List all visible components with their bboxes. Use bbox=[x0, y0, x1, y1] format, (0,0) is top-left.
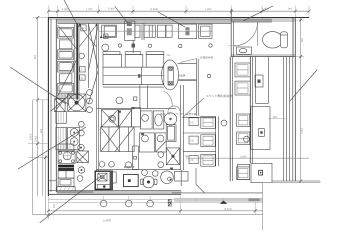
note circles row bbox=[102, 44, 109, 51]
svg-text:800: 800 bbox=[301, 37, 304, 42]
svg-text:P.S: P.S bbox=[190, 140, 194, 143]
svg-text:250: 250 bbox=[53, 203, 56, 208]
svg-text:P.S: P.S bbox=[190, 159, 194, 162]
svg-text:1,350: 1,350 bbox=[62, 8, 69, 11]
hatched shelf bbox=[57, 93, 76, 98]
right multi-line window wall bbox=[282, 57, 284, 182]
svg-text:(5,400): (5,400) bbox=[224, 208, 232, 211]
svg-text:1,400: 1,400 bbox=[262, 8, 269, 11]
svg-text:5,400: 5,400 bbox=[103, 219, 111, 223]
keyed circles next to column bbox=[78, 121, 84, 127]
svg-text:360: 360 bbox=[185, 155, 190, 158]
big circle machine bbox=[161, 171, 174, 184]
dishwasher hatched square bbox=[77, 151, 89, 163]
svg-text:5,400: 5,400 bbox=[108, 8, 115, 11]
svg-text:外階段手摺: 外階段手摺 bbox=[200, 56, 213, 60]
floor sink square bbox=[166, 148, 179, 165]
WC sink bbox=[237, 47, 252, 54]
svg-text:3,600: 3,600 bbox=[35, 135, 38, 142]
crossing diagonals over booths bbox=[58, 25, 77, 49]
svg-text:P.S: P.S bbox=[190, 121, 194, 124]
svg-text:900: 900 bbox=[288, 8, 293, 11]
svg-text:F: F bbox=[81, 68, 83, 72]
svg-text:2,600: 2,600 bbox=[30, 133, 33, 140]
svg-text:2,600: 2,600 bbox=[240, 155, 247, 158]
booth unit 1 bbox=[58, 27, 74, 38]
booth unit 2 bbox=[58, 61, 74, 72]
svg-text:450: 450 bbox=[167, 54, 172, 57]
svg-text:(1,365): (1,365) bbox=[150, 8, 158, 11]
round column station bbox=[162, 60, 179, 90]
top wall band bbox=[48, 17, 309, 19]
toilet bbox=[263, 32, 283, 48]
right WC wall bbox=[292, 18, 294, 57]
svg-text:850: 850 bbox=[34, 54, 37, 59]
bottom dims bbox=[48, 210, 320, 212]
svg-text:1,200: 1,200 bbox=[86, 8, 93, 11]
internal dim line bbox=[186, 157, 309, 159]
svg-text:冷蔵庫: 冷蔵庫 bbox=[178, 73, 186, 77]
svg-text:4,800: 4,800 bbox=[301, 127, 304, 134]
left outer wall bbox=[47, 18, 49, 197]
floor line bbox=[97, 169, 182, 171]
svg-text:スタンド看板(仮設置): スタンド看板(仮設置) bbox=[206, 94, 233, 98]
mixer bbox=[143, 176, 155, 188]
left dims bbox=[37, 17, 39, 100]
svg-text:800: 800 bbox=[273, 116, 278, 119]
svg-text:器具・ガスフライヤー設置工事: 器具・ガスフライヤー設置工事 bbox=[160, 112, 197, 116]
booth right edge line bbox=[74, 23, 76, 93]
right dims bbox=[300, 18, 302, 182]
svg-text:450: 450 bbox=[40, 128, 43, 133]
svg-text:1,800: 1,800 bbox=[205, 8, 212, 11]
